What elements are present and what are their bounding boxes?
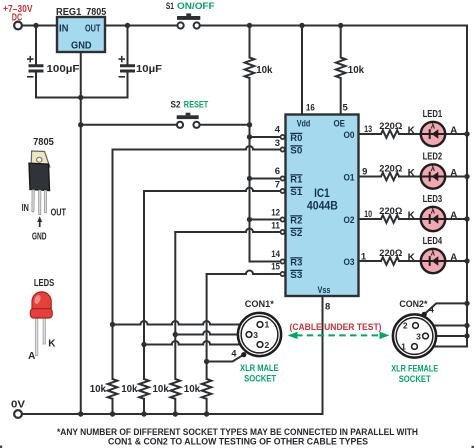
svg-text:IN: IN xyxy=(22,203,29,214)
svg-text:ON/OFF: ON/OFF xyxy=(177,1,215,12)
svg-text:8: 8 xyxy=(325,302,330,313)
svg-text:(CABLE UNDER TEST): (CABLE UNDER TEST) xyxy=(290,322,382,333)
svg-text:4044B: 4044B xyxy=(307,198,338,212)
svg-text:10k: 10k xyxy=(90,384,107,395)
svg-text:2: 2 xyxy=(403,320,408,330)
svg-text:K: K xyxy=(408,168,416,179)
svg-text:12: 12 xyxy=(271,208,280,219)
svg-text:S2: S2 xyxy=(290,228,302,238)
svg-text:6: 6 xyxy=(275,166,280,177)
svg-text:0V: 0V xyxy=(11,400,25,411)
svg-text:1: 1 xyxy=(401,341,406,351)
svg-text:7805: 7805 xyxy=(33,136,54,148)
svg-text:14: 14 xyxy=(271,249,280,260)
svg-text:220Ω: 220Ω xyxy=(379,164,402,175)
svg-text:K: K xyxy=(408,126,416,137)
svg-text:λ: λ xyxy=(431,206,436,215)
svg-text:LEDS: LEDS xyxy=(34,278,55,289)
svg-text:SOCKET: SOCKET xyxy=(399,374,431,385)
svg-text:220Ω: 220Ω xyxy=(379,121,402,132)
svg-text:S1: S1 xyxy=(166,1,175,12)
svg-text:13: 13 xyxy=(364,124,372,135)
svg-text:R3: R3 xyxy=(290,258,302,268)
svg-text:10k: 10k xyxy=(153,384,170,395)
svg-text:4: 4 xyxy=(429,304,434,314)
svg-text:Vdd: Vdd xyxy=(297,119,311,129)
svg-text:10: 10 xyxy=(364,209,372,220)
svg-text:3: 3 xyxy=(416,331,421,341)
svg-text:3: 3 xyxy=(275,138,280,149)
svg-text:LED3: LED3 xyxy=(423,194,443,205)
svg-text:1: 1 xyxy=(265,320,270,330)
svg-text:XLR MALE: XLR MALE xyxy=(240,363,279,374)
svg-text:IN: IN xyxy=(59,24,69,35)
svg-text:2: 2 xyxy=(265,340,270,350)
svg-text:CON1*: CON1* xyxy=(245,299,274,310)
svg-text:O1: O1 xyxy=(344,172,356,183)
svg-text:R1: R1 xyxy=(290,175,302,185)
svg-text:11: 11 xyxy=(271,220,280,231)
svg-text:LED4: LED4 xyxy=(423,236,443,247)
svg-text:λ: λ xyxy=(431,121,436,130)
svg-text:7: 7 xyxy=(275,179,280,190)
svg-text:10k: 10k xyxy=(348,65,365,76)
svg-text:S3: S3 xyxy=(290,270,302,280)
svg-text:LED1: LED1 xyxy=(423,109,443,120)
svg-text:1: 1 xyxy=(361,252,367,263)
svg-text:XLR FEMALE: XLR FEMALE xyxy=(391,363,438,374)
svg-text:A: A xyxy=(450,168,457,179)
svg-text:10k: 10k xyxy=(121,384,138,395)
svg-text:10k: 10k xyxy=(256,65,273,76)
svg-text:S1: S1 xyxy=(290,187,302,197)
svg-text:OUT: OUT xyxy=(51,208,66,219)
svg-text:K: K xyxy=(408,211,416,222)
svg-text:λ: λ xyxy=(431,164,436,173)
svg-text:9: 9 xyxy=(362,167,367,178)
svg-text:3: 3 xyxy=(253,330,258,340)
svg-text:SOCKET: SOCKET xyxy=(244,374,276,385)
svg-text:R2: R2 xyxy=(290,216,302,226)
svg-text:A: A xyxy=(450,126,457,137)
svg-text:GND: GND xyxy=(32,232,47,243)
svg-text:CON1 & CON2 TO ALLOW TESTING O: CON1 & CON2 TO ALLOW TESTING OF OTHER CA… xyxy=(108,436,369,447)
svg-text:4: 4 xyxy=(231,348,236,358)
svg-text:λ: λ xyxy=(431,248,436,257)
svg-text:S0: S0 xyxy=(290,146,302,156)
svg-text:A: A xyxy=(450,253,457,264)
svg-text:R0: R0 xyxy=(290,133,302,143)
svg-text:O0: O0 xyxy=(344,130,355,141)
svg-text:K: K xyxy=(408,253,416,264)
svg-text:100µF: 100µF xyxy=(47,64,80,75)
svg-text:RESET: RESET xyxy=(184,99,209,110)
svg-text:5: 5 xyxy=(343,102,349,113)
svg-text:LED2: LED2 xyxy=(423,152,443,163)
svg-text:16: 16 xyxy=(306,102,315,113)
svg-text:REG1: REG1 xyxy=(56,6,81,18)
svg-text:10µF: 10µF xyxy=(136,64,162,75)
svg-text:K: K xyxy=(48,338,56,349)
svg-text:Vss: Vss xyxy=(318,285,331,295)
svg-text:O3: O3 xyxy=(344,257,355,268)
svg-text:220Ω: 220Ω xyxy=(379,206,402,217)
svg-text:220Ω: 220Ω xyxy=(379,248,402,259)
svg-text:A: A xyxy=(28,351,35,362)
svg-text:OUT: OUT xyxy=(85,24,100,35)
svg-text:15: 15 xyxy=(271,262,280,273)
svg-text:O2: O2 xyxy=(344,215,355,226)
svg-text:4: 4 xyxy=(275,125,281,136)
svg-text:A: A xyxy=(450,211,457,222)
svg-text:CON2*: CON2* xyxy=(399,299,427,310)
svg-text:S2: S2 xyxy=(171,99,181,110)
svg-text:DC: DC xyxy=(12,13,22,24)
svg-text:10k: 10k xyxy=(184,384,201,395)
svg-text:GND: GND xyxy=(71,41,92,52)
svg-text:7805: 7805 xyxy=(86,6,106,18)
svg-text:OE: OE xyxy=(334,119,346,129)
